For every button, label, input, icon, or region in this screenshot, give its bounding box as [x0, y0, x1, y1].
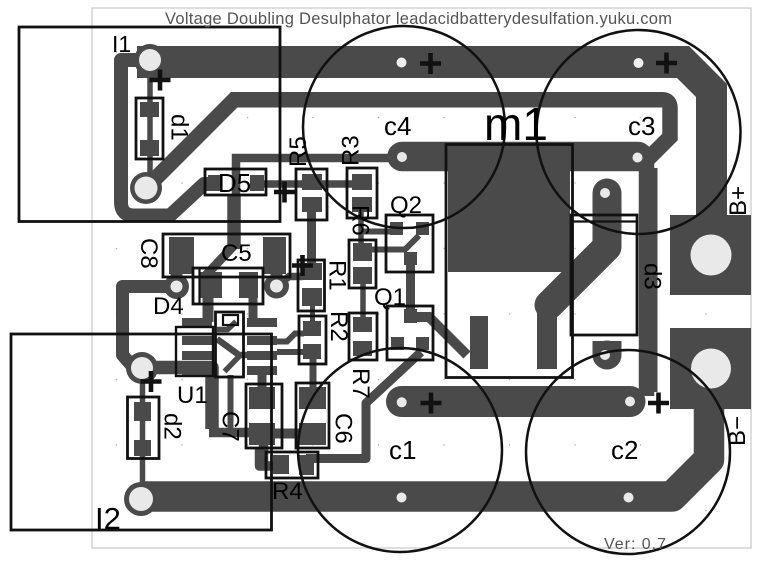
wire I1 pad diagonal, second horizontal trace, and B- vertical: [146, 100, 670, 396]
svg-text:C5: C5: [221, 240, 252, 267]
resistor R6 outline: [349, 240, 376, 288]
svg-text:Voltage Doubling Desulphator l: Voltage Doubling Desulphator leadacidbat…: [165, 10, 672, 28]
svg-text:D4: D4: [153, 293, 184, 320]
svg-text:m1: m1: [484, 98, 548, 150]
wire D4 left pad to U1 pin1: [203, 294, 214, 322]
svg-text:R6: R6: [347, 205, 374, 236]
svg-text:R3: R3: [338, 135, 365, 166]
wire under C7 to R4: [209, 433, 264, 463]
wire I1 left loop: [121, 60, 214, 216]
IC U1 left pads box: [176, 327, 213, 376]
resistor R3 pads: [352, 174, 372, 212]
wire I2 pad to C7 bottom and R4 left pad: [146, 368, 212, 430]
resistor R5 pads: [302, 174, 322, 212]
wire Q1 top pad to m1 left pin: [412, 317, 467, 355]
wire d3 bottom pad stub: [593, 341, 622, 355]
wire into R4 left pad: [260, 448, 278, 466]
resistor R2 outline: [299, 316, 326, 364]
pad hole c1: [397, 397, 407, 407]
resistor R4 outline: [266, 452, 318, 478]
capacitor c3 outline circle: [537, 30, 741, 234]
capacitor C7 outline: [246, 384, 282, 448]
svg-text:C8: C8: [135, 238, 162, 269]
svg-text:C6: C6: [330, 413, 357, 444]
diode d1 outline: [136, 98, 163, 159]
wire R6 area to Q2 left pad: [361, 229, 395, 235]
svg-text:C7: C7: [217, 411, 244, 442]
wire R6 top pad to Q2 bottom pad: [371, 236, 419, 250]
wire Q1 right pad down to R4: [306, 352, 421, 459]
wire c4 pad to c3 pad through m1: [402, 142, 638, 172]
svg-text:d3: d3: [639, 263, 666, 290]
diode D5 outline: [205, 169, 266, 195]
svg-text:R5: R5: [285, 136, 312, 167]
pad hole top trace left: [397, 58, 407, 68]
plus mark I1 pad: [150, 70, 171, 91]
pad I1 bottom: [130, 172, 162, 204]
svg-text:c1: c1: [389, 435, 416, 465]
wire top bus from I1 pad to B+: [137, 46, 727, 218]
wire R1 bottom to R2 top: [310, 300, 315, 325]
diode D5 pads: [208, 175, 264, 191]
svg-text:D5: D5: [218, 168, 251, 198]
connector I2 outline: [11, 334, 272, 530]
pad I2 top: [126, 352, 158, 384]
capacitor c4 outline circle: [303, 26, 505, 228]
plus mark c3: [656, 53, 677, 74]
svg-text:I2: I2: [95, 501, 121, 536]
wire U1 inner jog 3: [225, 357, 240, 372]
pad hole d3 bottom: [600, 350, 610, 360]
wire left pad loop to I2 top pad: [123, 287, 177, 368]
transistor m1 body fill: [448, 147, 570, 369]
wire thin c4 trace to left: [236, 158, 390, 196]
svg-text:c2: c2: [611, 435, 638, 465]
pad hole d3 top: [600, 188, 610, 198]
capacitor C5 pads: [169, 237, 286, 274]
wire lower bus I2 pad to B-: [141, 400, 709, 497]
IC U1 pin1 notch: [223, 315, 238, 325]
pad hole c4: [397, 152, 407, 162]
wire d1 pads link: [147, 60, 153, 188]
wire C5 right pad to via: [271, 272, 283, 282]
wire Q2 bottom pad to Q1 top pad: [406, 258, 415, 316]
wire B- vertical widen: [640, 168, 658, 392]
pad B- square: [670, 328, 751, 409]
resistor R6 pads: [353, 243, 372, 284]
pad hole c2: [625, 397, 635, 407]
wire U1 pin5 to C7 top: [258, 372, 267, 390]
pad via left of D4: [164, 274, 189, 299]
pad I1 top: [134, 44, 166, 76]
wire vertical below D5: [227, 194, 241, 249]
resistor R2 pads: [303, 321, 321, 359]
pad B+ square: [670, 215, 751, 295]
wire D4 right pad to U1 pin8: [249, 294, 258, 322]
pad hole top trace right: [634, 58, 644, 68]
wire U1 pin6 to R2 bottom: [277, 349, 304, 355]
resistor R3 outline: [347, 168, 377, 218]
pad hole lower bus left: [397, 493, 407, 503]
diode D4 pads: [200, 272, 258, 298]
wire C7 bottom to C6 bottom: [262, 429, 310, 439]
wire R3 bottom to R6 top: [358, 208, 364, 248]
diode D4 outline: [193, 268, 263, 304]
resistor R1 outline: [298, 260, 325, 311]
capacitor C6 outline: [296, 383, 329, 448]
transistor Q1 outline: [387, 306, 433, 360]
svg-text:U1: U1: [177, 382, 208, 409]
plus mark c2: [648, 393, 669, 414]
wire I2 pad through d2: [140, 368, 146, 499]
wire C5 left pad to via: [171, 272, 183, 282]
capacitor c2 outline circle: [526, 350, 730, 554]
IC U1 right pads: [247, 318, 277, 375]
wire U1 inner jog 1: [217, 322, 236, 330]
wire d3 top pad to m1 right pin: [549, 193, 607, 305]
transistor Q2 outline: [386, 215, 433, 272]
svg-text:d1: d1: [166, 114, 193, 141]
diode d3 outline: [571, 215, 637, 335]
plus mark c4: [420, 53, 441, 74]
plus mark I2 pad: [141, 371, 162, 392]
svg-text:Ver: 0.7: Ver: 0.7: [604, 536, 666, 553]
diode d2 outline: [128, 397, 160, 459]
diode d2 pads: [134, 402, 151, 456]
plus mark c1: [421, 393, 442, 414]
resistor R5 outline: [296, 169, 327, 220]
pad hole c3: [633, 153, 643, 163]
wire R2 bottom to C6 top: [310, 355, 317, 392]
wire right pad to R1 plus: [277, 277, 303, 286]
resistor R1 pads: [302, 263, 322, 306]
diode D4 band line: [198, 268, 200, 304]
connector I1 outline: [19, 27, 280, 222]
diode d3 band line: [571, 220, 637, 222]
svg-text:Q2: Q2: [390, 192, 422, 219]
diode d1 pads: [140, 102, 159, 156]
pad cap d3 bottom: [593, 341, 622, 370]
capacitor c1 outline circle: [298, 348, 502, 552]
wire R6 bottom to R7 top: [360, 282, 366, 322]
pad via right of D4: [264, 274, 289, 299]
svg-text:d2: d2: [159, 413, 186, 440]
IC U1 outline: [216, 312, 244, 377]
plus mark D5: [274, 182, 295, 203]
wire U1 jog to R2 top: [277, 334, 304, 342]
wire diagonal to D4 left pad: [206, 246, 234, 290]
wire U1 bottom stem to C7 trace: [228, 375, 234, 430]
svg-text:R2: R2: [325, 311, 352, 342]
svg-text:I1: I1: [112, 31, 131, 57]
capacitor C7 pads: [249, 387, 275, 445]
resistor R7 pads: [353, 317, 372, 356]
wire upper bottom bus c1 pad to B-: [402, 386, 631, 417]
transistor Q2 pads: [390, 222, 429, 265]
wire D5 right pad to R5/R3 top pads: [255, 180, 360, 188]
IC U1 left pads: [182, 318, 212, 375]
svg-text:c4: c4: [384, 111, 411, 141]
capacitor C5 outline: [163, 234, 290, 277]
capacitor C6 pads: [299, 387, 326, 445]
resistor R4 pads: [273, 455, 314, 475]
svg-text:R4: R4: [272, 478, 303, 505]
svg-text:c3: c3: [628, 111, 655, 141]
resistor R7 outline: [349, 313, 377, 360]
pad I2 bottom: [124, 482, 158, 516]
transistor Q1 pads: [391, 309, 429, 350]
wire U1 inner jog 2: [217, 339, 247, 355]
svg-text:R7: R7: [347, 368, 374, 399]
svg-text:R1: R1: [324, 260, 351, 291]
plus mark C5 right pad: [292, 255, 313, 276]
transistor m1 outline: [446, 145, 573, 378]
wire R5 bottom to R1 top: [307, 212, 316, 266]
svg-text:Q1: Q1: [374, 284, 406, 311]
pad hole lower bus right: [624, 493, 634, 503]
svg-text:B+: B+: [725, 186, 752, 216]
svg-text:B−: B−: [724, 416, 751, 446]
